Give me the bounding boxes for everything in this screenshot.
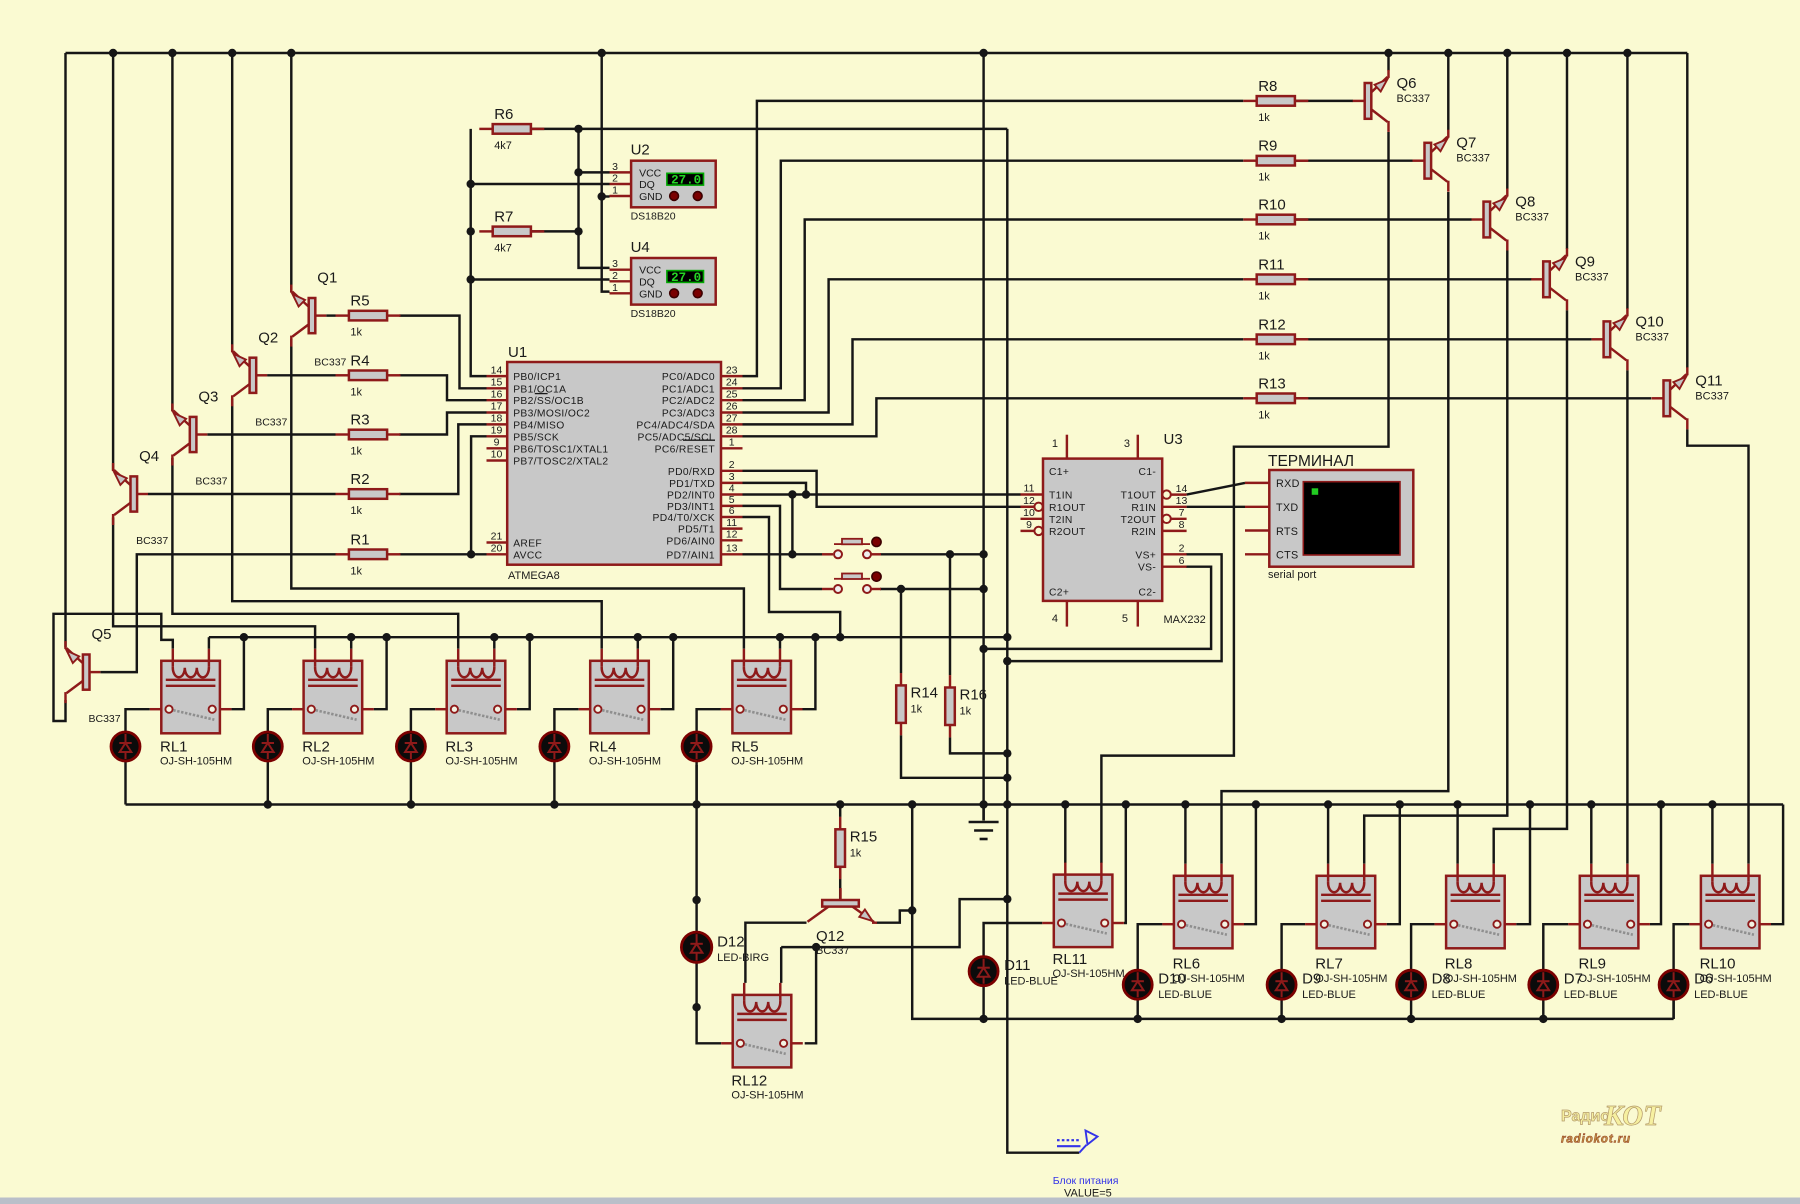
wire R3 to PB3 [399, 413, 486, 435]
svg-text:16: 16 [491, 388, 503, 400]
svg-text:4: 4 [1052, 613, 1058, 625]
transistor Q6 [1353, 70, 1430, 132]
svg-text:Q7: Q7 [1456, 135, 1476, 152]
LED D7 [1529, 970, 1618, 1001]
svg-text:R14: R14 [911, 684, 939, 701]
wire PD2 INT0 [743, 493, 807, 495]
svg-text:3: 3 [612, 258, 618, 270]
svg-text:Q8: Q8 [1515, 194, 1535, 211]
svg-text:10: 10 [1023, 507, 1035, 519]
svg-text:T1IN: T1IN [1049, 491, 1073, 502]
wire R1IN to terminal TXD [1187, 506, 1245, 508]
resistor R1 [336, 531, 401, 577]
svg-text:11: 11 [1024, 483, 1035, 495]
svg-text:PB6/TOSC1/XTAL1: PB6/TOSC1/XTAL1 [513, 444, 608, 455]
resistor R5 [336, 293, 401, 339]
wire Q3 collector to RL3 coil [172, 458, 458, 649]
svg-text:3: 3 [729, 471, 735, 483]
wire R14 bottom [901, 735, 1007, 778]
svg-text:9: 9 [494, 437, 500, 449]
wire relay right contact to rail [1650, 805, 1661, 925]
wire PD4 to relay rail [743, 517, 841, 637]
wire R13 to Q11 base [1294, 397, 1651, 399]
svg-text:PC2/ADC2: PC2/ADC2 [662, 396, 715, 407]
wire LED to cathode rail [1542, 999, 1544, 1019]
transistor Q1 [291, 270, 346, 369]
wire Q12 emitter [876, 911, 912, 923]
relay RL11 [1042, 863, 1124, 948]
wire DQ bus [471, 129, 487, 376]
svg-text:R16: R16 [960, 687, 988, 704]
wire R10 to Q8 base [1294, 218, 1471, 220]
svg-text:Радио: Радио [1561, 1108, 1610, 1125]
resistor R4 [336, 352, 401, 398]
resistor R10 [1243, 197, 1308, 243]
svg-text:R2IN: R2IN [1131, 527, 1156, 538]
wire PC1 to R9 [743, 161, 1244, 389]
svg-text:MAX232: MAX232 [1164, 614, 1206, 626]
svg-text:14: 14 [1176, 483, 1188, 495]
wire bus drop to Q3 [171, 53, 173, 411]
svg-text:DQ: DQ [639, 179, 655, 191]
wire Q8 collector to RL7 coil [1364, 251, 1507, 864]
resistor R7 [479, 208, 544, 254]
svg-text:BC337: BC337 [1695, 390, 1729, 402]
wire RL1 coil right [208, 637, 210, 649]
LED D10 [1123, 970, 1212, 1001]
svg-text:1k: 1k [350, 505, 362, 517]
svg-text:4k7: 4k7 [494, 140, 512, 152]
wire LED to bottom rail [124, 760, 126, 805]
wire DQ to U2 [471, 183, 610, 185]
microcontroller U1 ATMEGA8 [487, 344, 743, 582]
svg-text:1: 1 [1052, 438, 1058, 450]
svg-text:PD6/AIN0: PD6/AIN0 [666, 536, 715, 547]
wire D11 cathode [982, 986, 984, 1019]
svg-text:1k: 1k [1258, 350, 1270, 362]
svg-text:LED-BIRG: LED-BIRG [717, 952, 769, 964]
relay RL8 [1435, 864, 1517, 949]
svg-text:1k: 1k [911, 703, 923, 715]
wire bus drop to Q2 [231, 53, 233, 352]
relay RL3 [435, 649, 517, 734]
svg-text:radiokot.ru: radiokot.ru [1561, 1134, 1631, 1146]
svg-text:9: 9 [1026, 519, 1032, 531]
wire DQ to U4 [471, 278, 610, 280]
relay RL7 [1305, 864, 1387, 949]
svg-text:6: 6 [729, 505, 735, 517]
svg-text:PC1/ADC1: PC1/ADC1 [662, 384, 715, 395]
wire RL2 coil right [350, 637, 352, 649]
svg-text:TXD: TXD [1276, 502, 1299, 514]
wire R2 to Q4 base [148, 493, 336, 495]
svg-text:OJ-SH-105HM: OJ-SH-105HM [445, 755, 517, 767]
wire Q9 collector to RL8 coil [1494, 310, 1567, 864]
svg-text:1k: 1k [960, 706, 972, 718]
svg-text:RL4: RL4 [589, 738, 617, 755]
svg-text:PC6/RESET: PC6/RESET [655, 444, 716, 455]
svg-text:D8: D8 [1432, 971, 1451, 988]
svg-text:1: 1 [612, 282, 618, 294]
svg-text:DQ: DQ [639, 276, 655, 288]
wire relay left contact to LED [697, 709, 721, 733]
junction dot U2 GND [598, 192, 606, 200]
svg-text:VCC: VCC [639, 167, 662, 179]
svg-text:4: 4 [729, 483, 735, 495]
svg-text:ATMEGA8: ATMEGA8 [508, 570, 560, 582]
svg-text:LED-BLUE: LED-BLUE [1158, 989, 1212, 1001]
wire Q11 collector to RL10 coil [1687, 429, 1748, 864]
wire T1OUT to terminal RXD [1187, 483, 1245, 495]
svg-text:RL5: RL5 [731, 738, 759, 755]
svg-text:Q5: Q5 [92, 626, 112, 643]
wire LED to bottom rail [267, 760, 269, 805]
junction dot PB5 branch [467, 550, 475, 558]
transistor Q5 [66, 626, 121, 725]
wire relay coil left to rail [1327, 805, 1329, 864]
transistor Q10 [1592, 308, 1669, 370]
svg-text:1k: 1k [350, 327, 362, 339]
wire PC2 to R10 [743, 220, 1244, 401]
wire bus drop to Q5 [64, 53, 66, 647]
resistor R3 [336, 412, 401, 458]
svg-text:RL1: RL1 [160, 738, 188, 755]
wire RL5 coil right [779, 637, 781, 649]
svg-text:R5: R5 [350, 293, 369, 310]
svg-text:R10: R10 [1258, 197, 1286, 214]
svg-text:ТЕРМИНАЛ: ТЕРМИНАЛ [1268, 453, 1354, 470]
wire relay coil rail [209, 636, 1007, 638]
relay RL12 [721, 983, 803, 1068]
wire RL12 coil right drop [780, 947, 782, 983]
svg-text:BC337: BC337 [89, 713, 121, 725]
label RL5 [731, 738, 803, 767]
svg-text:КОТ: КОТ [1603, 1100, 1662, 1132]
svg-text:PB3/MOSI/OC2: PB3/MOSI/OC2 [513, 409, 590, 420]
svg-text:PD5/T1: PD5/T1 [678, 525, 715, 536]
svg-text:U3: U3 [1164, 431, 1183, 448]
LED [396, 732, 425, 761]
svg-text:11: 11 [726, 517, 737, 529]
wire R12 to Q10 base [1294, 338, 1591, 340]
svg-text:PB2/SS/OC1B: PB2/SS/OC1B [513, 396, 584, 407]
wire INT0 branch to button 1 [791, 495, 793, 555]
relay RL9 [1568, 864, 1650, 949]
wire Q7 collector to RL6 coil [1222, 192, 1449, 864]
svg-text:R8: R8 [1258, 78, 1277, 95]
resistor R16 [945, 675, 987, 737]
wire ground branch [982, 805, 984, 821]
transistor Q11 [1652, 367, 1729, 429]
svg-text:13: 13 [1176, 495, 1188, 507]
svg-text:2: 2 [1179, 543, 1185, 555]
label RL2 [302, 738, 374, 767]
svg-text:6: 6 [1179, 555, 1185, 567]
wire RL4 contact right [660, 637, 673, 709]
svg-text:GND: GND [639, 288, 663, 300]
svg-text:PD2/INT0: PD2/INT0 [667, 491, 715, 502]
wire D12 to RL12 contact [697, 963, 722, 1044]
wire R4 to Q2 base [267, 374, 335, 376]
svg-text:BC337: BC337 [816, 945, 850, 957]
resistor R15 [835, 817, 877, 879]
wire R1 to AVCC [399, 553, 486, 555]
svg-text:8: 8 [1179, 519, 1185, 531]
ground [969, 822, 999, 839]
svg-text:RL11: RL11 [1053, 951, 1088, 968]
svg-text:BC337: BC337 [1635, 331, 1669, 343]
label RL3 [445, 738, 517, 767]
svg-text:D10: D10 [1158, 971, 1186, 988]
svg-text:OJ-SH-105HM: OJ-SH-105HM [1579, 973, 1651, 985]
radiokot logo [1561, 1100, 1662, 1146]
wire PC5 to R13 [743, 398, 1244, 436]
wire LED cathode rail drop [912, 805, 1673, 1019]
wire relay right contact to rail [1771, 805, 1783, 925]
svg-text:OJ-SH-105HM: OJ-SH-105HM [1315, 973, 1387, 985]
svg-text:U1: U1 [508, 344, 527, 361]
junction dots middle verticals [979, 645, 1011, 904]
svg-text:PC3/ADC3: PC3/ADC3 [662, 409, 715, 420]
relay RL4 [579, 649, 661, 734]
svg-text:Q9: Q9 [1575, 253, 1595, 270]
svg-text:12: 12 [1023, 495, 1035, 507]
svg-text:PC4/ADC4/SDA: PC4/ADC4/SDA [636, 420, 715, 431]
svg-text:BC337: BC337 [136, 535, 168, 547]
svg-text:4k7: 4k7 [494, 242, 512, 254]
svg-text:PD7/AIN1: PD7/AIN1 [666, 550, 715, 561]
svg-text:1k: 1k [1258, 112, 1270, 124]
svg-text:R1IN: R1IN [1131, 503, 1156, 514]
svg-text:PD1/TXD: PD1/TXD [669, 479, 715, 490]
wire relay left contact to LED [1543, 924, 1568, 970]
wire relay left contact to LED [126, 709, 150, 733]
svg-text:RL2: RL2 [302, 738, 330, 755]
svg-text:BC337: BC337 [1397, 93, 1431, 105]
svg-text:VS+: VS+ [1135, 550, 1156, 561]
svg-text:BC337: BC337 [255, 416, 287, 428]
wire bus drop to Q1 [290, 53, 292, 292]
svg-text:1k: 1k [350, 446, 362, 458]
wire PD1 to T1IN [743, 483, 1021, 495]
wire PD0 to R1OUT [743, 471, 1036, 507]
wire relay left contact to LED [1282, 924, 1306, 970]
label RL1 [160, 738, 232, 767]
wire VS- loop [984, 567, 1212, 649]
LED D12 [681, 932, 769, 964]
svg-text:27.0: 27.0 [671, 174, 701, 188]
svg-text:1k: 1k [350, 565, 362, 577]
wire RL1 contact right [231, 637, 244, 709]
resistor R8 [1243, 78, 1308, 124]
svg-text:D6: D6 [1694, 971, 1713, 988]
svg-text:2: 2 [612, 270, 618, 282]
wire relay left contact to LED [554, 709, 578, 733]
svg-text:VS-: VS- [1138, 563, 1156, 574]
svg-text:D11: D11 [1004, 957, 1030, 974]
svg-text:RTS: RTS [1276, 526, 1298, 538]
svg-text:27.0: 27.0 [671, 271, 701, 285]
wire R16 top [949, 554, 951, 675]
svg-text:GND: GND [639, 191, 663, 203]
svg-text:Q2: Q2 [258, 329, 278, 346]
svg-text:DS18B20: DS18B20 [631, 308, 676, 320]
svg-text:RXD: RXD [1276, 478, 1300, 490]
wire LED to cathode rail [1410, 999, 1412, 1019]
svg-text:BC337: BC337 [1456, 153, 1490, 165]
wire relay left contact to LED [268, 709, 292, 733]
wire relay left contact to LED [411, 709, 435, 733]
svg-text:20: 20 [491, 543, 503, 555]
wire +V top bus [66, 52, 1688, 54]
svg-text:BC337: BC337 [314, 357, 346, 369]
wire branch to PB5 [471, 436, 486, 554]
label RL4 [589, 738, 661, 767]
svg-text:C2+: C2+ [1049, 587, 1069, 598]
svg-text:T1OUT: T1OUT [1121, 491, 1157, 502]
svg-text:1: 1 [612, 185, 618, 197]
wire LED to cathode rail [1672, 999, 1674, 1019]
resistor R13 [1243, 375, 1308, 421]
wire VS+ loop [1007, 554, 1221, 661]
svg-text:T2OUT: T2OUT [1121, 515, 1157, 526]
wire bus drop to Q10 [1626, 53, 1628, 309]
transistor Q3 [172, 389, 227, 488]
svg-text:U4: U4 [631, 239, 650, 256]
svg-text:21: 21 [491, 531, 503, 543]
LED D11 [969, 957, 1058, 988]
label RL12 [731, 1072, 803, 1101]
svg-text:PD4/T0/XCK: PD4/T0/XCK [653, 513, 715, 524]
transistor Q12 [808, 888, 878, 957]
svg-text:18: 18 [491, 413, 503, 425]
wire Q10 collector to RL9 coil [1626, 370, 1628, 864]
resistor R6 [479, 106, 544, 152]
wire GND to U2 [602, 195, 610, 197]
LED D8 [1397, 970, 1486, 1001]
wire bus drop to Q6 [1387, 53, 1389, 71]
svg-text:LED-BLUE: LED-BLUE [1302, 989, 1356, 1001]
wire R6 output [522, 128, 1007, 130]
LED [682, 732, 711, 761]
svg-text:BC337: BC337 [1575, 271, 1609, 283]
power supply Блок питания [1053, 1131, 1119, 1200]
svg-text:Q1: Q1 [317, 270, 337, 287]
wire relay right contact to rail [1244, 805, 1256, 925]
svg-text:17: 17 [491, 401, 503, 413]
wire D12 vertical [695, 765, 697, 932]
svg-text:RL12: RL12 [731, 1072, 767, 1089]
svg-text:DS18B20: DS18B20 [631, 211, 676, 223]
transistor Q2 [232, 329, 287, 428]
svg-text:12: 12 [726, 529, 738, 541]
svg-text:R7: R7 [494, 208, 513, 225]
LED D9 [1267, 970, 1356, 1001]
svg-text:Q12: Q12 [816, 928, 844, 945]
virtual terminal [1245, 453, 1413, 581]
wire LED to bottom rail [553, 760, 555, 805]
svg-text:C2-: C2- [1139, 587, 1157, 598]
svg-text:PD3/INT1: PD3/INT1 [667, 502, 715, 513]
push button 2 [822, 572, 881, 593]
svg-text:Q10: Q10 [1635, 313, 1663, 330]
svg-text:1k: 1k [350, 386, 362, 398]
temperature sensor U2 [610, 142, 716, 223]
junction dots DQ net [467, 180, 475, 284]
junction dots VCC net [574, 125, 582, 236]
wire R14 top [900, 589, 902, 673]
svg-text:R15: R15 [850, 828, 878, 845]
svg-text:T2IN: T2IN [1049, 515, 1073, 526]
resistor R9 [1243, 138, 1308, 184]
wire D6 to rail [1672, 999, 1674, 1019]
resistor R11 [1243, 256, 1308, 302]
svg-text:26: 26 [726, 401, 738, 413]
svg-text:OJ-SH-105HM: OJ-SH-105HM [589, 755, 661, 767]
bottom scrollbar strip [0, 1198, 1800, 1204]
svg-text:3: 3 [1124, 438, 1130, 450]
wire bus drop to Q7 [1447, 53, 1449, 130]
wire R9 to Q7 base [1294, 159, 1412, 161]
wire LED to cathode rail [1280, 999, 1282, 1019]
svg-text:OJ-SH-105HM: OJ-SH-105HM [1053, 968, 1125, 980]
svg-text:PC5/ADC5/SCL: PC5/ADC5/SCL [638, 432, 715, 443]
svg-text:Q6: Q6 [1397, 75, 1417, 92]
wire relay left contact to LED [1411, 924, 1435, 970]
wire bus drop to Q9 [1566, 53, 1568, 249]
svg-text:OJ-SH-105HM: OJ-SH-105HM [1445, 973, 1517, 985]
resistor R14 [896, 673, 938, 735]
svg-text:R1OUT: R1OUT [1049, 503, 1086, 514]
wire RL12 contact riser [805, 947, 816, 1043]
LED [540, 732, 569, 761]
svg-text:C1-: C1- [1139, 467, 1157, 478]
label RL8 [1445, 955, 1517, 985]
svg-text:27: 27 [726, 413, 738, 425]
svg-text:R2OUT: R2OUT [1049, 527, 1086, 538]
svg-text:1: 1 [729, 437, 735, 449]
svg-text:Q11: Q11 [1695, 372, 1722, 389]
wire R15 to Q12 base [839, 867, 841, 899]
svg-text:25: 25 [726, 388, 738, 400]
relay RL2 [292, 649, 374, 734]
svg-text:D12: D12 [717, 933, 745, 950]
svg-text:LED-BLUE: LED-BLUE [1564, 989, 1618, 1001]
wire R7 to VCC rail [522, 230, 578, 232]
svg-text:PB4/MISO: PB4/MISO [513, 420, 564, 431]
wire Q12 collector to RL12 coil [745, 923, 806, 983]
LED D6 [1659, 970, 1748, 1001]
svg-text:2: 2 [612, 173, 618, 185]
wire button 2 to R14 [880, 588, 984, 590]
svg-text:LED-BLUE: LED-BLUE [1694, 989, 1748, 1001]
wire PD3 to button 2 [743, 506, 823, 589]
svg-text:7: 7 [1179, 507, 1185, 519]
wire relay coil left to rail [1184, 805, 1186, 864]
wire mid vertical rail [982, 53, 984, 821]
svg-text:19: 19 [491, 425, 503, 437]
wire relay right contact to rail [1516, 805, 1530, 925]
junction dots relay coil rail [240, 633, 1012, 641]
svg-text:OJ-SH-105HM: OJ-SH-105HM [731, 1089, 803, 1101]
svg-text:C1+: C1+ [1049, 467, 1069, 478]
wire GND rail U2 U4 [602, 53, 610, 292]
wire RL2 contact right [374, 637, 387, 709]
wire R4 to PB2 [399, 375, 486, 400]
svg-text:Блок питания: Блок питания [1053, 1175, 1119, 1187]
svg-text:R4: R4 [350, 352, 369, 369]
svg-text:D7: D7 [1564, 971, 1583, 988]
